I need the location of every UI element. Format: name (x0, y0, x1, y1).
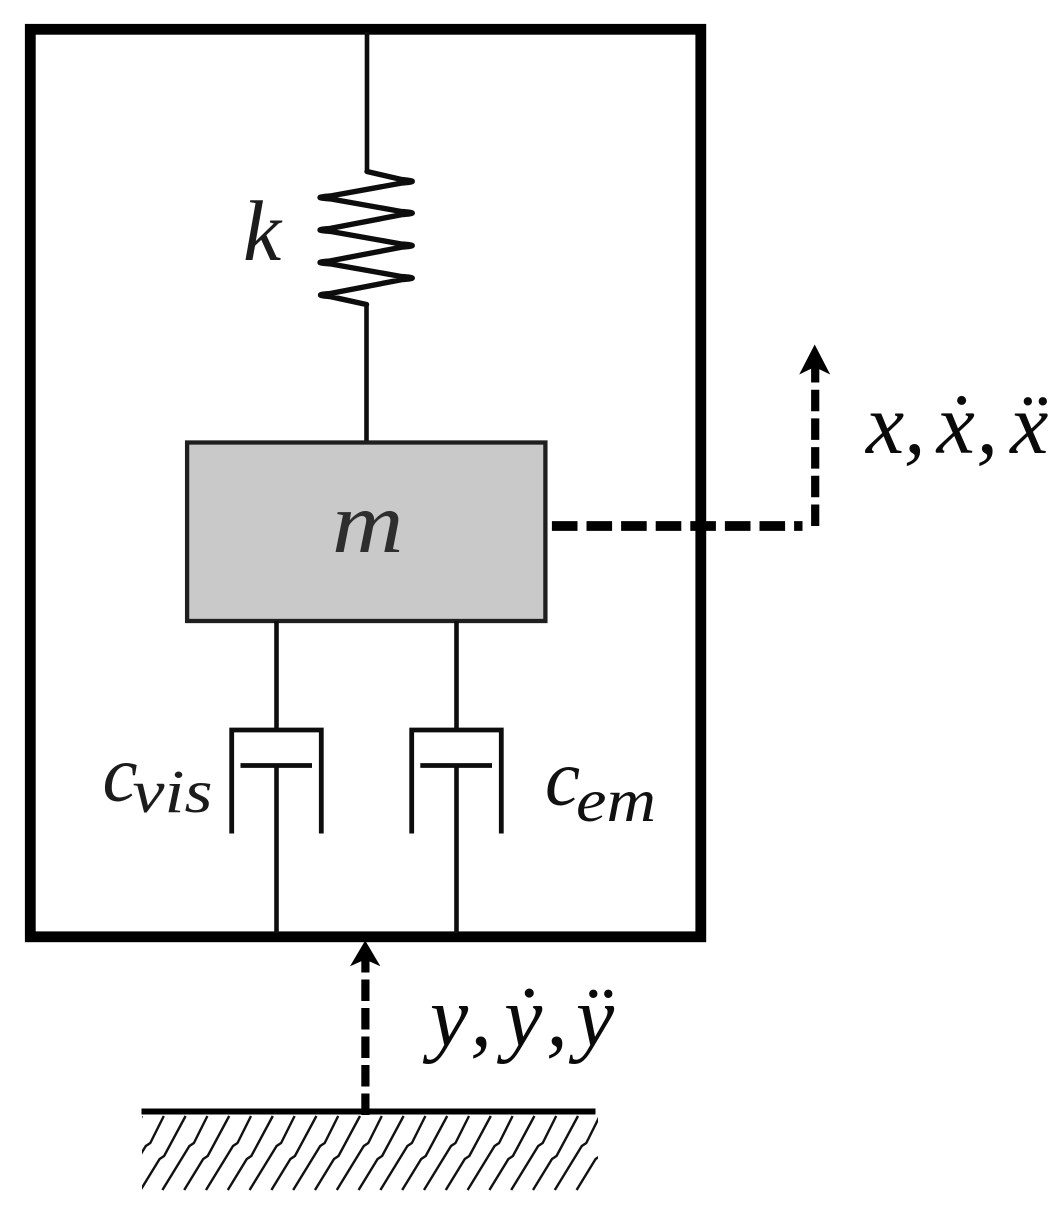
svg-text:,: , (546, 969, 568, 1065)
mass m (block) (187, 443, 545, 622)
wire: mass to left damper rod (274, 621, 279, 732)
svg-text:x: x (864, 376, 904, 472)
ground line (142, 1109, 596, 1115)
svg-text:,: , (977, 376, 999, 472)
wire: spring to mass rod (364, 304, 369, 442)
arrowhead x (799, 345, 830, 375)
dashed line: y arrow (vertical) (361, 958, 369, 1115)
svg-text:ÿ: ÿ (568, 969, 615, 1065)
svg-text:ẍ: ẍ (1009, 376, 1048, 472)
spring k (320, 172, 412, 305)
svg-text:em: em (576, 768, 656, 835)
svg-text:y: y (422, 969, 469, 1065)
wire: left damper piston rod to frame bottom (274, 766, 279, 934)
wire: top rod from frame to spring (365, 32, 370, 172)
svg-text:ẏ: ẏ (496, 969, 543, 1065)
wire: mass to right damper rod (454, 621, 459, 732)
damper c_em piston (420, 763, 492, 768)
svg-text:k: k (243, 183, 283, 279)
wire: right damper piston rod to frame bottom (454, 766, 459, 934)
arrowhead y (350, 941, 380, 967)
damper c_vis piston (241, 763, 313, 768)
svg-text:,: , (904, 376, 926, 472)
frame (vibrating housing box) (30, 29, 701, 937)
damper c_em cup (412, 730, 502, 834)
dashed line: mass displacement tap (horizontal) (552, 521, 803, 531)
svg-text:ẋ: ẋ (936, 376, 975, 472)
svg-text:m: m (332, 474, 404, 571)
damper c_vis cup (232, 730, 322, 834)
svg-text:c: c (545, 736, 580, 823)
dashed line: x arrow (vertical) (811, 365, 819, 526)
svg-text:,: , (470, 969, 492, 1065)
svg-text:vis: vis (133, 759, 213, 826)
